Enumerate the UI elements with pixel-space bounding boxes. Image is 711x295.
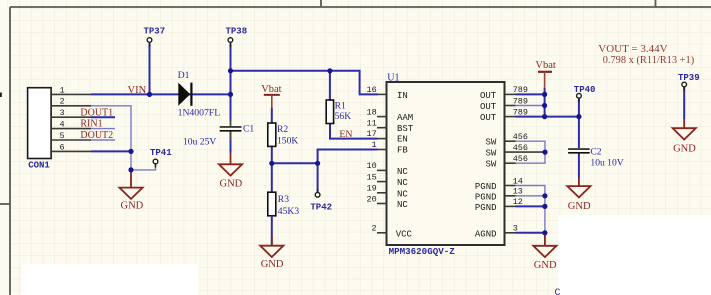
U1 pin 14 PGND xyxy=(475,176,523,192)
U1 pin 456 SW row1 xyxy=(486,132,529,148)
wire divider link xyxy=(272,162,318,164)
U1 pin 15 NC xyxy=(367,172,409,188)
svg-text:FB: FB xyxy=(397,146,408,156)
U1 pin 17 EN xyxy=(367,129,408,145)
CON1 pin 6 xyxy=(51,142,91,152)
svg-text:20: 20 xyxy=(367,194,377,204)
svg-text:SW: SW xyxy=(486,160,497,170)
wire DOUT2 xyxy=(91,139,115,141)
U1 pin 456 SW row3 xyxy=(486,154,529,170)
svg-text:IN: IN xyxy=(397,91,408,101)
svg-text:19: 19 xyxy=(367,184,377,194)
svg-text:456: 456 xyxy=(513,143,528,153)
svg-text:R2: R2 xyxy=(277,124,288,135)
left margin plain strip xyxy=(0,7,9,295)
svg-text:1: 1 xyxy=(60,85,65,95)
svg-text:GND: GND xyxy=(534,260,557,271)
wire TP37 drop xyxy=(149,44,151,95)
wire VIN rail xyxy=(91,93,231,95)
junction node AGND xyxy=(542,230,547,235)
CON1 pin 3 xyxy=(51,108,91,118)
capacitor C2 xyxy=(568,146,624,168)
svg-text:16: 16 xyxy=(367,85,377,95)
wire OUT pin 789 row3 xyxy=(516,116,545,118)
svg-text:TP41: TP41 xyxy=(150,148,172,158)
U1 pin 13 PGND xyxy=(475,187,523,203)
svg-text:17: 17 xyxy=(367,129,377,139)
svg-text:4: 4 xyxy=(60,120,65,130)
junction node TP38 top rail xyxy=(228,68,233,73)
svg-text:VCC: VCC xyxy=(396,229,413,239)
junction node OUT row2 xyxy=(542,103,547,108)
svg-text:10u 10V: 10u 10V xyxy=(590,157,623,168)
U1 pin 789 OUT row2 xyxy=(480,96,528,112)
border tick top 2 xyxy=(655,0,657,7)
svg-text:GND: GND xyxy=(568,201,591,212)
junction node R1 top xyxy=(327,68,332,73)
junction node VIN/TP37 xyxy=(147,92,152,97)
svg-text:Vbat: Vbat xyxy=(261,84,281,95)
svg-text:11: 11 xyxy=(367,119,377,129)
U1 pin 12 PGND xyxy=(475,197,523,213)
junction node SW mid xyxy=(542,150,547,155)
svg-text:RIN1: RIN1 xyxy=(80,118,102,129)
wire PGND pin14 route xyxy=(516,186,545,233)
svg-text:15: 15 xyxy=(367,172,377,182)
sheet border vertical xyxy=(9,7,11,295)
wire TP39 drop xyxy=(683,87,685,119)
svg-text:1N4007FL: 1N4007FL xyxy=(178,108,221,119)
svg-text:789: 789 xyxy=(513,96,528,106)
junction node TP41/GND xyxy=(128,167,133,172)
svg-text:MPM3620GQV-Z: MPM3620GQV-Z xyxy=(389,246,456,257)
svg-text:6: 6 xyxy=(60,142,65,152)
resistor R2 xyxy=(268,123,299,146)
svg-text:R3: R3 xyxy=(278,194,289,205)
U1 pin 20 NC xyxy=(367,194,409,210)
wire RIN1 xyxy=(91,128,115,130)
wire SW loop xyxy=(516,141,546,163)
svg-text:10: 10 xyxy=(367,161,377,171)
svg-text:OUT: OUT xyxy=(480,91,497,101)
white patch bottom-left xyxy=(22,264,199,295)
U1 pin 11 BST xyxy=(367,119,414,135)
ground under CON1 xyxy=(119,170,143,212)
svg-text:PGND: PGND xyxy=(475,192,497,202)
test point TP38 xyxy=(226,27,248,47)
junction node C2/TP40 xyxy=(576,114,581,119)
svg-text:D1: D1 xyxy=(178,70,190,81)
svg-text:0.798 x (R11/R13 +1): 0.798 x (R11/R13 +1) xyxy=(603,55,695,66)
svg-text:TP38: TP38 xyxy=(226,27,248,37)
svg-text:VOUT = 3.44V: VOUT = 3.44V xyxy=(598,43,667,55)
junction node PGND 12 xyxy=(542,204,547,209)
svg-text:OUT: OUT xyxy=(480,102,497,112)
wire pin2 route xyxy=(91,106,131,170)
wire DOUT1 xyxy=(91,116,115,118)
U1 pin 18 AAM xyxy=(367,107,414,123)
svg-text:DOUT1: DOUT1 xyxy=(80,107,113,118)
sheet border horizontal xyxy=(10,6,711,8)
junction node pin6 xyxy=(128,149,133,154)
U1 pin 3 AGND xyxy=(475,224,518,240)
wire TP38 drop xyxy=(230,44,232,121)
annotation VOUT formula xyxy=(598,43,694,66)
diode D1 xyxy=(178,70,221,118)
junction node divider xyxy=(269,161,274,166)
svg-text:BST: BST xyxy=(397,124,414,134)
svg-text:45K3: 45K3 xyxy=(278,206,300,217)
border tick top 1 xyxy=(320,0,322,7)
test point TP42 xyxy=(310,189,332,212)
test point TP40 xyxy=(574,85,596,102)
wire C2 top xyxy=(578,117,580,148)
svg-text:NC: NC xyxy=(397,167,408,177)
svg-text:CON1: CON1 xyxy=(28,161,50,171)
U1 pin 10 NC xyxy=(367,161,409,177)
wire PGND pin13 xyxy=(516,195,545,197)
svg-text:DOUT2: DOUT2 xyxy=(80,130,113,141)
svg-text:2: 2 xyxy=(60,97,65,107)
U1 pin 1 FB xyxy=(372,140,409,156)
svg-text:NC: NC xyxy=(397,189,408,199)
svg-text:AAM: AAM xyxy=(397,113,413,123)
wire Vbat to R2 xyxy=(271,108,273,124)
border tick left xyxy=(0,203,10,205)
svg-text:C2: C2 xyxy=(590,146,601,157)
CON1 pin 5 xyxy=(51,131,91,141)
CON1 pin 1 xyxy=(51,85,91,95)
U1 pin 789 OUT row3 xyxy=(480,107,528,123)
op IC U1 body xyxy=(387,73,505,257)
wire OUT pin 789 row2 xyxy=(516,105,545,107)
svg-text:18: 18 xyxy=(367,107,377,117)
wire TP41 xyxy=(131,164,156,170)
wire R2 bottom / R3 top xyxy=(271,146,273,192)
svg-text:EN: EN xyxy=(397,135,408,145)
wire top rail to IN xyxy=(231,71,379,95)
svg-text:U1: U1 xyxy=(387,73,399,84)
svg-text:NC: NC xyxy=(397,178,408,188)
svg-text:C1: C1 xyxy=(243,123,254,134)
wire C2 bottom xyxy=(578,153,580,178)
wire OUT vertical xyxy=(544,88,546,117)
svg-text:GND: GND xyxy=(220,178,243,189)
svg-text:456: 456 xyxy=(513,154,528,164)
wire TP40 drop xyxy=(578,99,580,117)
svg-text:Vbat: Vbat xyxy=(535,60,555,71)
svg-text:10u 25V: 10u 25V xyxy=(183,137,216,148)
U1 pin 16 IN xyxy=(367,85,408,101)
U1 pin 2 VCC xyxy=(372,224,413,240)
svg-text:GND: GND xyxy=(673,143,696,154)
svg-text:12: 12 xyxy=(513,197,523,207)
svg-text:EN: EN xyxy=(339,129,352,140)
svg-text:SW: SW xyxy=(486,138,497,148)
wire C1 bottom xyxy=(230,131,232,152)
svg-text:TP39: TP39 xyxy=(678,73,700,83)
zone letter partial left edge xyxy=(0,93,2,98)
svg-text:2: 2 xyxy=(372,224,377,234)
U1 pin 19 NC xyxy=(367,184,409,200)
U1 pin 789 OUT row1 xyxy=(480,85,528,101)
junction node OUT row3 xyxy=(542,114,547,119)
ground under R3 xyxy=(260,216,284,270)
power Vbat left xyxy=(261,84,281,109)
svg-text:13: 13 xyxy=(513,187,523,197)
U1 pin 456 SW row2 xyxy=(486,143,546,159)
wire FB to divider xyxy=(318,150,378,193)
svg-text:C: C xyxy=(555,288,561,295)
wire R1 top xyxy=(329,71,331,100)
wire AGND pin3 xyxy=(516,232,545,234)
svg-text:3: 3 xyxy=(513,224,518,234)
svg-text:150K: 150K xyxy=(277,135,298,146)
resistor R3 xyxy=(268,192,300,217)
junction node TP38 VIN xyxy=(228,92,233,97)
junction node OUT row1 xyxy=(542,92,547,97)
ground under TP39 xyxy=(673,119,697,154)
svg-text:789: 789 xyxy=(513,107,528,117)
wire R1 to EN pin xyxy=(330,124,378,139)
white patch bottom-right xyxy=(558,215,711,295)
capacitor C1 xyxy=(183,120,254,148)
svg-text:3: 3 xyxy=(60,108,65,118)
junction node PGND 13 xyxy=(542,193,547,198)
test point TP41 xyxy=(150,148,172,167)
ground under C2 xyxy=(567,178,591,212)
svg-text:PGND: PGND xyxy=(475,203,497,213)
wire PGND pin12 xyxy=(516,205,545,207)
wire OUT to C2 node xyxy=(545,116,579,118)
svg-text:456: 456 xyxy=(513,132,528,142)
test point TP37 xyxy=(144,27,166,47)
svg-text:TP37: TP37 xyxy=(144,27,166,37)
svg-text:TP42: TP42 xyxy=(310,202,332,212)
ground under AGND xyxy=(533,233,557,271)
svg-text:VIN: VIN xyxy=(128,85,147,96)
junction node FB/TP42 xyxy=(315,161,320,166)
CON1 pin 2 xyxy=(51,97,91,107)
wire OUT pin 789 row1 xyxy=(516,93,545,95)
svg-text:GND: GND xyxy=(261,259,284,270)
svg-text:1: 1 xyxy=(372,140,377,150)
svg-text:PGND: PGND xyxy=(475,182,497,192)
svg-text:AGND: AGND xyxy=(475,229,497,239)
svg-text:OUT: OUT xyxy=(480,113,497,123)
connector CON1 xyxy=(28,88,51,171)
svg-text:NC: NC xyxy=(397,200,408,210)
svg-text:5: 5 xyxy=(60,131,65,141)
svg-text:56K: 56K xyxy=(335,111,352,122)
CON1 pin 4 xyxy=(51,120,91,130)
svg-text:SW: SW xyxy=(486,149,497,159)
wire pin6 xyxy=(91,150,131,152)
svg-text:14: 14 xyxy=(513,176,523,186)
ground under C1 xyxy=(219,153,243,190)
resistor R1 xyxy=(326,100,351,124)
test point TP39 xyxy=(678,73,700,91)
svg-text:GND: GND xyxy=(121,201,144,212)
svg-text:789: 789 xyxy=(513,85,528,95)
power Vbat right xyxy=(535,60,555,88)
